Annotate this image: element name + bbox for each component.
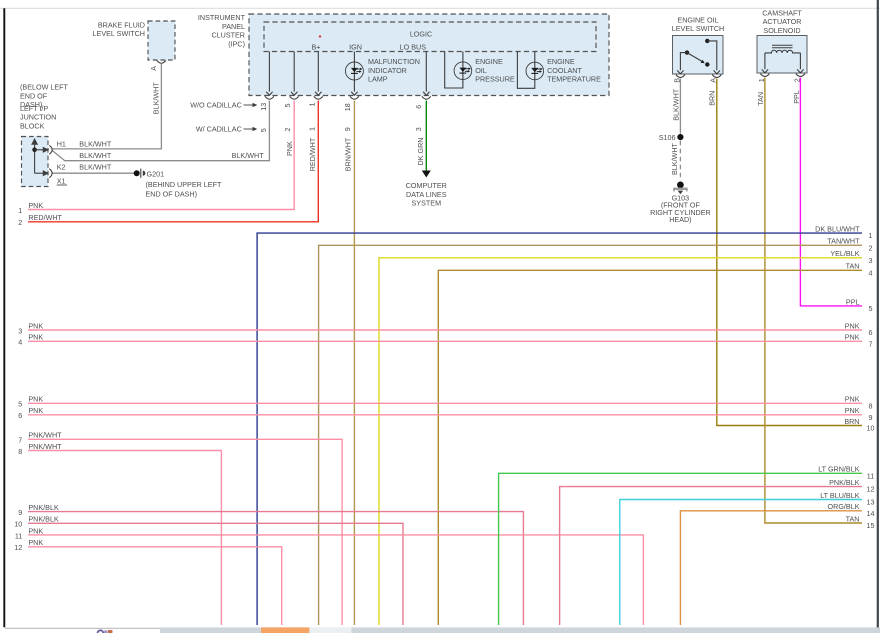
svg-text:W/ CADILLAC: W/ CADILLAC: [196, 125, 242, 134]
junction block splice node: [32, 148, 37, 153]
wire YEL/BLK right row 3 and down to bottom: [379, 258, 862, 625]
svg-text:6: 6: [18, 411, 22, 420]
instrument panel cluster (IPC) box: [249, 14, 609, 96]
svg-text:INDICATOR: INDICATOR: [368, 66, 407, 75]
svg-text:PNK/BLK: PNK/BLK: [28, 515, 59, 524]
svg-text:MALFUNCTION: MALFUNCTION: [368, 57, 420, 66]
svg-text:CAMSHAFT: CAMSHAFT: [762, 8, 802, 17]
svg-text:DK GRN: DK GRN: [416, 138, 425, 166]
svg-text:1: 1: [307, 103, 316, 107]
svg-text:SYSTEM: SYSTEM: [412, 199, 442, 208]
wire DK BLU/WHT right row 1 and down to bottom: [257, 233, 862, 625]
svg-text:7: 7: [869, 339, 873, 348]
svg-text:PRESSURE: PRESSURE: [475, 75, 515, 84]
svg-text:PNK/WHT: PNK/WHT: [28, 431, 62, 440]
svg-text:BLOCK: BLOCK: [20, 122, 45, 131]
svg-text:1: 1: [307, 127, 316, 131]
svg-text:18: 18: [343, 103, 352, 111]
engine oil level switch internal pivot contact B: [677, 50, 689, 74]
IPC LOGIC inner box: [264, 22, 596, 52]
wire BLK/WHT brake fluid switch pin A to junction block H1: [53, 64, 162, 149]
camshaft actuator solenoid box: [757, 36, 807, 74]
ground G103 symbol: [673, 182, 687, 195]
svg-text:2: 2: [283, 128, 292, 132]
svg-text:4: 4: [869, 268, 873, 277]
svg-text:2: 2: [18, 218, 22, 227]
svg-text:S106: S106: [659, 133, 676, 142]
svg-text:SOLENOID: SOLENOID: [763, 26, 800, 35]
svg-text:PNK: PNK: [845, 395, 860, 404]
svg-text:8: 8: [18, 447, 22, 456]
camshaft solenoid pin 2 cup: [796, 74, 805, 77]
svg-text:1: 1: [757, 78, 766, 82]
svg-text:13: 13: [259, 103, 268, 111]
computer data lines arrow: [422, 171, 431, 178]
svg-text:DK BLU/WHT: DK BLU/WHT: [815, 225, 860, 234]
wire PNK left row 5 to right row 8: [28, 402, 862, 404]
svg-text:RED/WHT: RED/WHT: [28, 213, 62, 222]
svg-text:8: 8: [869, 401, 873, 410]
wire PNK left row 4 to right row 7: [28, 340, 862, 342]
svg-text:PNK: PNK: [28, 333, 43, 342]
wire PNK left row 12 down to bottom: [28, 547, 282, 625]
svg-text:LT BLU/BLK: LT BLU/BLK: [820, 491, 859, 500]
svg-text:9: 9: [18, 508, 22, 517]
camshaft solenoid lead pin 2: [797, 53, 803, 73]
svg-text:TAN: TAN: [846, 514, 860, 523]
bottom white panel: [5, 629, 160, 633]
svg-text:END OF: END OF: [20, 91, 48, 100]
svg-text:(BEHIND UPPER LEFT: (BEHIND UPPER LEFT: [146, 180, 222, 189]
svg-text:TEMPERATURE: TEMPERATURE: [547, 75, 601, 84]
svg-text:LAMP: LAMP: [368, 75, 388, 84]
svg-text:PNK/BLK: PNK/BLK: [829, 478, 860, 487]
svg-text:BRN: BRN: [708, 91, 717, 106]
junction block branch to K2 with arrow: [35, 171, 48, 175]
IPC internal LO BUS lead to pin 6: [423, 52, 429, 96]
svg-text:PPL: PPL: [792, 90, 801, 104]
wire BRN/WHT circuit 9 IPC pin 18 down to bottom: [353, 101, 355, 625]
engine oil level switch blade with arrow: [687, 53, 710, 67]
svg-text:9: 9: [343, 127, 352, 131]
svg-text:COOLANT: COOLANT: [547, 66, 582, 75]
engine oil level switch box: [673, 36, 724, 75]
right page border: [877, 0, 879, 633]
engine coolant temperature lamp circle: [526, 62, 544, 80]
svg-text:LT GRN/BLK: LT GRN/BLK: [818, 465, 859, 474]
svg-text:INSTRUMENT: INSTRUMENT: [198, 13, 246, 22]
wire PNK left row 6 to right row 9: [28, 414, 862, 416]
svg-text:COMPUTER: COMPUTER: [406, 181, 447, 190]
junction block branch to H1 with arrow: [35, 148, 48, 152]
svg-text:K2: K2: [57, 162, 66, 171]
svg-text:BRN: BRN: [844, 417, 859, 426]
wire RED/WHT circuit 1 IPC pin 1 to left edge row 2: [28, 101, 318, 222]
svg-text:10: 10: [14, 520, 22, 529]
svg-text:PNK: PNK: [28, 395, 43, 404]
brake fluid switch pin A cup: [157, 60, 166, 63]
svg-text:PNK: PNK: [28, 321, 43, 330]
svg-text:ENGINE: ENGINE: [475, 57, 503, 66]
svg-text:PNK/BLK: PNK/BLK: [28, 503, 59, 512]
svg-text:4: 4: [18, 338, 22, 347]
IPC internal lead IGN through MIL lamp to pin 18: [351, 52, 357, 96]
svg-text:A: A: [709, 78, 718, 83]
svg-text:2: 2: [793, 78, 802, 82]
IPC internal loop for engine oil pressure lamp: [445, 52, 463, 89]
svg-text:3: 3: [869, 256, 873, 265]
op-amp U1 malfunction indicator lamp circle: [345, 62, 363, 80]
IPC pin 13 connector cup: [265, 96, 274, 99]
svg-text:PNK: PNK: [845, 333, 860, 342]
svg-text:PNK/WHT: PNK/WHT: [28, 442, 62, 451]
wire PNK/WHT left row 8 down to bottom: [28, 451, 221, 626]
svg-text:HEAD): HEAD): [669, 215, 691, 224]
engine coolant temperature LED symbol: [531, 68, 543, 74]
left I/P junction block box: [22, 137, 49, 187]
BOTTOMBAR: [5, 627, 880, 633]
svg-text:ENGINE OIL: ENGINE OIL: [677, 15, 718, 24]
ground G201 symbol: [141, 169, 146, 178]
svg-text:5: 5: [259, 128, 268, 132]
engine oil level switch pin A cup: [712, 75, 721, 78]
camshaft solenoid coil L1: [765, 50, 801, 53]
svg-text:LEFT I/P: LEFT I/P: [20, 104, 48, 113]
svg-text:BLK/WHT: BLK/WHT: [232, 151, 265, 160]
svg-text:5: 5: [283, 104, 292, 108]
svg-text:BLK/WHT: BLK/WHT: [672, 88, 681, 121]
wire PPL camshaft solenoid pin 2 to right edge row 5: [800, 78, 862, 306]
svg-text:5: 5: [869, 304, 873, 313]
svg-text:PANEL: PANEL: [222, 22, 245, 31]
svg-text:14: 14: [867, 509, 875, 518]
logo sliver: [98, 630, 113, 633]
svg-text:11: 11: [15, 531, 22, 540]
svg-text:A: A: [149, 66, 158, 71]
svg-text:6: 6: [414, 105, 423, 109]
engine oil level switch pin B cup: [676, 75, 685, 78]
wire ORG/BLK right row 14 down to bottom: [680, 511, 862, 625]
svg-text:BRN/WHT: BRN/WHT: [344, 137, 353, 171]
svg-text:PNK: PNK: [845, 406, 860, 415]
engine oil level switch internal fixed contact A: [705, 39, 720, 74]
svg-text:15: 15: [867, 521, 875, 530]
wire BRN engine oil level switch pin A to right edge row 10: [717, 79, 862, 426]
wire PNK left row 3 to right row 6: [28, 329, 862, 331]
ground G201 node dot: [134, 170, 140, 176]
IPC pin 1 connector cup: [314, 96, 323, 99]
svg-text:BLK/WHT: BLK/WHT: [79, 162, 112, 171]
wire PNK/WHT left row 7 down to bottom: [28, 439, 342, 625]
IPC internal lead to pin 5: [291, 52, 297, 96]
svg-text:TAN: TAN: [756, 92, 765, 106]
svg-text:11: 11: [867, 471, 874, 480]
wire BLK/WHT junction block K2 to ground G201: [53, 172, 135, 174]
svg-text:BLK/WHT: BLK/WHT: [670, 142, 679, 175]
svg-text:(IPC): (IPC): [228, 40, 245, 49]
node W/O CADILLAC arrow: [244, 103, 258, 107]
svg-text:B+: B+: [312, 42, 321, 51]
svg-text:BLK/WHT: BLK/WHT: [79, 140, 112, 149]
junction block K2 terminal cup: [49, 169, 52, 178]
svg-text:TAN: TAN: [846, 262, 860, 271]
node W/ CADILLAC arrow: [244, 127, 258, 131]
svg-text:ACTUATOR: ACTUATOR: [763, 17, 802, 26]
svg-text:LEVEL SWITCH: LEVEL SWITCH: [93, 29, 145, 38]
svg-text:BLK/WHT: BLK/WHT: [79, 151, 112, 160]
IPC internal lead to pin 13: [266, 52, 272, 96]
svg-text:PNK: PNK: [28, 538, 43, 547]
wire BLK/WHT splice S106 to ground G103 (dashed): [679, 141, 681, 181]
wire LT BLU/BLK right row 13 down to bottom: [620, 500, 862, 626]
IPC pin 18 connector cup: [350, 96, 359, 99]
red dot artifact in logic box: [319, 35, 321, 37]
wire BLK/WHT engine oil level switch pin B to splice S106: [679, 79, 681, 134]
svg-text:IGN: IGN: [349, 42, 362, 51]
svg-text:BLK/WHT: BLK/WHT: [151, 82, 160, 115]
bottom scrollbar light segment: [309, 627, 351, 633]
wire TAN camshaft solenoid pin 1 to right edge row 15: [765, 78, 862, 523]
svg-text:9: 9: [869, 413, 873, 422]
engine oil pressure LED symbol: [459, 67, 471, 73]
SYMBOLS: [32, 39, 805, 195]
wire DK GRN circuit 3 IPC pin 6 to computer data lines arrow: [425, 101, 427, 171]
BOXES: [22, 14, 808, 187]
wire PNK/BLK right row 12 down to bottom: [560, 487, 862, 625]
svg-text:JUNCTION: JUNCTION: [20, 113, 56, 122]
svg-text:W/O CADILLAC: W/O CADILLAC: [190, 101, 242, 110]
wire TAN right row 4 and down to bottom: [438, 270, 862, 625]
svg-text:1: 1: [869, 231, 873, 240]
svg-text:PPL: PPL: [846, 297, 860, 306]
wire TAN/WHT right row 2 and down to bottom: [319, 245, 862, 625]
left page border: [3, 8, 5, 627]
svg-text:YEL/BLK: YEL/BLK: [830, 249, 859, 258]
camshaft solenoid lead pin 1: [762, 53, 768, 73]
svg-text:LOGIC: LOGIC: [410, 29, 432, 38]
svg-text:CLUSTER: CLUSTER: [211, 31, 245, 40]
wire PNK/BLK left row 10 down to bottom: [28, 523, 403, 625]
wire PNK/BLK left row 9 down to bottom: [28, 512, 523, 625]
bottom scrollbar track: [160, 627, 880, 633]
svg-text:PNK: PNK: [845, 321, 860, 330]
brake fluid level switch box: [148, 21, 175, 60]
junction block internal riser with up arrow: [32, 139, 37, 173]
camshaft solenoid pin 1 cup: [760, 74, 769, 77]
svg-text:LO BUS: LO BUS: [400, 42, 427, 51]
camshaft solenoid core lines: [772, 45, 793, 47]
svg-text:ENGINE: ENGINE: [547, 57, 575, 66]
svg-text:B: B: [673, 78, 682, 83]
svg-text:10: 10: [867, 424, 875, 433]
IPC pin 5 connector cup: [290, 96, 299, 99]
IPC internal lead B+ to pin 1: [315, 52, 321, 96]
wire PNK circuit 2 IPC pin 5 to left edge row 1: [28, 101, 294, 210]
splice S106: [677, 134, 683, 140]
svg-text:PNK: PNK: [28, 526, 43, 535]
wire LT GRN/BLK right row 11 down to bottom: [499, 473, 862, 625]
svg-text:1: 1: [18, 206, 22, 215]
svg-text:3: 3: [18, 326, 22, 335]
svg-text:7: 7: [18, 436, 22, 445]
svg-text:END OF DASH): END OF DASH): [146, 189, 198, 198]
svg-text:PNK: PNK: [28, 406, 43, 415]
IPC pin 6 connector cup: [422, 96, 431, 99]
svg-text:LEVEL SWITCH: LEVEL SWITCH: [672, 24, 724, 33]
svg-text:2: 2: [869, 243, 873, 252]
svg-text:H1: H1: [57, 140, 66, 149]
bottom scrollbar thumb orange: [261, 627, 309, 633]
svg-text:X1: X1: [57, 176, 66, 185]
svg-text:3: 3: [414, 127, 423, 131]
svg-text:TAN/WHT: TAN/WHT: [827, 237, 860, 246]
junction block H1 terminal cup: [49, 145, 52, 154]
svg-text:12: 12: [867, 485, 875, 494]
top page rule: [0, 7, 880, 9]
svg-text:5: 5: [18, 400, 22, 409]
svg-text:PNK: PNK: [28, 201, 43, 210]
svg-text:G201: G201: [147, 169, 165, 178]
IPC internal loop for engine coolant temperature lamp: [517, 52, 534, 89]
svg-text:OIL: OIL: [475, 66, 487, 75]
engine oil pressure lamp circle: [454, 62, 472, 80]
MIL LED symbol: [351, 68, 363, 74]
svg-text:RED/WHT: RED/WHT: [308, 137, 317, 171]
svg-text:ORG/BLK: ORG/BLK: [828, 502, 860, 511]
svg-text:DATA LINES: DATA LINES: [406, 190, 447, 199]
svg-text:12: 12: [14, 543, 22, 552]
svg-text:PNK: PNK: [285, 141, 294, 156]
svg-text:6: 6: [869, 328, 873, 337]
svg-text:13: 13: [867, 498, 875, 507]
svg-text:(BELOW LEFT: (BELOW LEFT: [20, 83, 69, 92]
wire BLK/WHT junction block H1 to IPC pin 13: [52, 101, 269, 161]
wire PNK left row 11 down to bottom: [28, 535, 643, 625]
